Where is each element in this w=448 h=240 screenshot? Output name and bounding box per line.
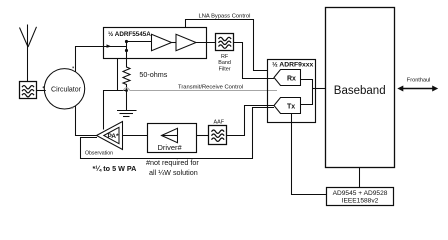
label RF Band Filter <box>218 54 231 72</box>
svg-text:#not required for: #not required for <box>146 158 199 167</box>
resistor R1 50-ohms <box>123 66 130 91</box>
svg-text:½ ADRF5545A: ½ ADRF5545A <box>108 30 151 38</box>
svg-text:½ ADRF9xxx: ½ ADRF9xxx <box>272 61 314 69</box>
wire node to PA <box>104 91 127 130</box>
wire merge to baseband <box>313 88 326 90</box>
antenna ANT <box>20 25 37 82</box>
svg-text:Fronthaul: Fronthaul <box>407 77 431 83</box>
RF band filter FL2 <box>216 34 234 51</box>
wire RF filter to Rx input <box>234 43 275 79</box>
wire node to A1 <box>127 41 152 43</box>
svg-text:RF: RF <box>221 54 229 60</box>
svg-text:Band: Band <box>218 60 231 66</box>
svg-text:IEEE1588v2: IEEE1588v2 <box>342 198 379 205</box>
Rx block <box>274 70 301 86</box>
clock box U4 AD9545 AD9528 <box>327 188 394 206</box>
LNA bypass control net <box>186 20 268 71</box>
svg-text:Circulator: Circulator <box>51 87 82 94</box>
transceiver box U2 half ADRF9xxx <box>268 60 316 123</box>
wire transceiver to clock box <box>292 114 327 195</box>
wire AAF to Tx input <box>227 106 275 136</box>
svg-text:LNA Bypass Control: LNA Bypass Control <box>199 13 251 19</box>
fronthaul arrow <box>397 86 438 92</box>
ground GND1 <box>117 91 137 117</box>
LNA amplifier A2 <box>176 34 196 50</box>
wire A1 to A2 <box>172 42 177 44</box>
wire circulator to LNA node <box>76 47 127 72</box>
svg-text:all ¼W solution: all ¼W solution <box>149 168 198 177</box>
wire PA output to circulator <box>76 106 97 136</box>
LNA switch box U1 half ADRF5545A <box>104 28 207 59</box>
svg-text:AAF: AAF <box>214 120 225 126</box>
svg-text:Baseband: Baseband <box>334 85 386 97</box>
wire node vertical <box>126 42 128 67</box>
wire driver to PA <box>123 135 148 137</box>
wire A2 to RF band filter <box>196 42 216 44</box>
svg-text:PA*: PA* <box>107 133 119 140</box>
node junction dot upper <box>125 40 128 43</box>
transmit/receive control net gray <box>123 88 277 91</box>
port marker dot left <box>43 86 45 88</box>
svg-text:Tx: Tx <box>287 103 295 110</box>
signal arrow <box>107 44 112 47</box>
PA Q1 <box>97 122 123 150</box>
node junction dot lower <box>125 49 128 52</box>
wire baseband to clock box <box>359 168 361 188</box>
wire Rx out to merge <box>301 80 313 105</box>
svg-text:Driver#: Driver# <box>158 143 183 152</box>
svg-text:Transmit/Receive Control: Transmit/Receive Control <box>178 84 243 90</box>
port marker tick top <box>72 67 74 69</box>
svg-text:*¼ to 5 W PA: *¼ to 5 W PA <box>93 164 137 173</box>
node junction dot at resistor bottom <box>125 89 128 92</box>
svg-text:Filter: Filter <box>219 66 231 72</box>
svg-text:50-ohms: 50-ohms <box>139 70 167 79</box>
svg-text:Observation: Observation <box>85 151 113 157</box>
wire AAF to driver <box>197 135 209 137</box>
filter FL1 antenna band filter <box>20 82 37 99</box>
driver box A3 <box>148 124 197 153</box>
circulator U5 <box>44 69 84 109</box>
Tx block <box>274 98 301 114</box>
AAF filter FL3 <box>209 126 227 145</box>
LNA amplifier A1 <box>152 34 172 50</box>
wire driver input <box>162 135 178 137</box>
port marker tick bottom <box>72 107 74 109</box>
wire switch second port to node <box>117 59 119 91</box>
svg-text:Rx: Rx <box>287 75 296 82</box>
wire filter to circulator <box>37 90 46 92</box>
observation path net <box>81 108 275 159</box>
svg-text:AD9545 + AD9528: AD9545 + AD9528 <box>333 190 388 197</box>
baseband box U3 <box>326 8 395 168</box>
